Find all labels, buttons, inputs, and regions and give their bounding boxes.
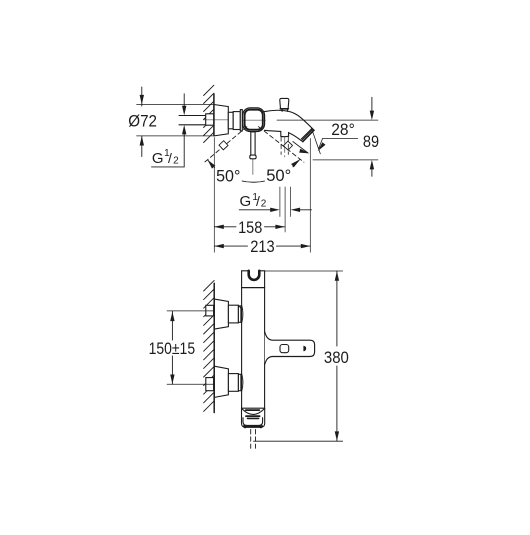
svg-text:28°: 28° <box>331 120 355 139</box>
label G1/2 center <box>240 192 267 210</box>
lever inner square <box>280 345 289 353</box>
neck cylinders <box>228 112 233 129</box>
supply pipe <box>179 115 206 117</box>
G1/2 pipe dimension <box>183 94 185 106</box>
outlet axis line <box>311 128 320 154</box>
wall line (top view) <box>213 94 215 136</box>
svg-text:/: / <box>168 150 172 166</box>
G1/2 nipple extension lines <box>279 187 281 217</box>
centerline through handle <box>242 119 266 121</box>
svg-text:213: 213 <box>250 237 275 256</box>
svg-text:158: 158 <box>238 218 262 237</box>
svg-text:2: 2 <box>173 155 179 166</box>
cap joint line <box>242 287 265 289</box>
G1/2 dim arrows <box>239 209 272 211</box>
body top edge <box>242 270 249 272</box>
hose outlet nipple <box>281 131 289 136</box>
50deg label backgrounds <box>215 167 242 182</box>
wall line (bottom view) <box>213 283 215 412</box>
top nut <box>228 305 238 323</box>
svg-text:50°: 50° <box>266 166 291 185</box>
svg-text:G: G <box>152 150 164 167</box>
svg-text:380: 380 <box>324 348 349 367</box>
U notch <box>249 271 260 280</box>
pipe nut <box>206 114 214 125</box>
wall hatching (bottom view) <box>204 280 215 411</box>
bottom nut <box>228 374 238 392</box>
svg-text:G: G <box>240 193 252 210</box>
wall hatching (top view) <box>204 85 214 142</box>
top escutcheon <box>214 299 228 329</box>
lever <box>251 132 255 155</box>
28 angle arc <box>293 142 308 153</box>
28deg label + leader <box>323 138 358 140</box>
lever arm <box>265 332 315 364</box>
diverter knob cap <box>280 98 289 108</box>
escutcheon (top view) <box>214 105 228 136</box>
bottom escutcheon <box>214 366 228 397</box>
connection centerlines <box>167 310 214 312</box>
lever centerline <box>252 159 254 174</box>
50deg dashed line right <box>259 127 304 163</box>
svg-text:150±15: 150±15 <box>149 339 196 358</box>
158 dimension <box>214 226 236 228</box>
50deg dashed line left <box>204 127 247 163</box>
square symbol right <box>283 141 292 150</box>
380 dimension <box>265 270 343 272</box>
svg-text:Ø72: Ø72 <box>128 112 157 131</box>
89 dimension <box>277 119 378 121</box>
centerline <box>204 119 243 121</box>
spout underside <box>289 133 303 142</box>
spout bottom edge <box>265 130 281 131</box>
spout outlet face <box>303 130 314 142</box>
label G1/2 upper <box>152 148 179 167</box>
top connection pipe <box>206 305 214 316</box>
outlet face shading <box>301 129 313 141</box>
bottom connection pipe <box>206 378 214 391</box>
svg-text:/: / <box>256 193 260 209</box>
diverter knob stem <box>282 109 287 112</box>
square symbol left <box>219 141 228 150</box>
wall extension line <box>213 138 215 253</box>
150+-15 dimension <box>171 311 173 340</box>
nipple hidden lines <box>280 137 282 155</box>
lever dark dot <box>303 346 306 352</box>
body vertical <box>241 271 243 408</box>
spout tip extension line <box>309 139 311 253</box>
213 dimension <box>214 245 247 247</box>
aerator <box>242 407 265 409</box>
svg-text:50°: 50° <box>216 167 240 186</box>
svg-text:2: 2 <box>261 199 267 210</box>
spout top edge <box>265 110 315 130</box>
water stream dashed <box>250 430 252 449</box>
ring band <box>240 110 242 131</box>
handle ring <box>243 108 265 132</box>
svg-text:89: 89 <box>363 132 379 151</box>
dia72 dimension <box>137 104 213 106</box>
50/50 angle dimension arc <box>208 160 300 183</box>
